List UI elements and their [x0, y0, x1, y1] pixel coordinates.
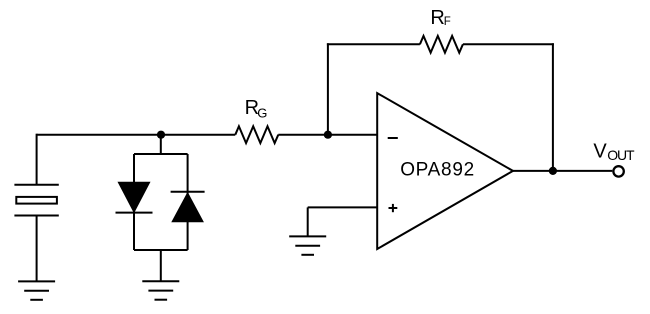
resistor RF — [420, 36, 463, 53]
label RF — [430, 7, 450, 29]
ground (non-inverting input) — [289, 236, 326, 254]
svg-text:F: F — [444, 16, 451, 28]
wire: feedback right vertical down to output node — [552, 43, 554, 171]
piezoelectric sensor X1 — [14, 185, 58, 216]
wire: junction down to diode box top — [160, 135, 162, 155]
wire: diode box outline — [134, 154, 188, 250]
wire: output from op-amp to terminal — [513, 170, 612, 172]
node: output junction dot — [549, 167, 557, 175]
diode D2 (right, cathode up) — [171, 192, 205, 222]
wire: main horizontal from sensor branch to RG — [37, 134, 236, 136]
output terminal circle — [613, 166, 623, 176]
node: junction dot at inverting input / feedback — [324, 131, 332, 139]
node: junction dot at diode branch — [157, 131, 165, 139]
wire: left vertical from main node down to sensor top — [36, 134, 38, 185]
wire: feedback top right segment — [463, 43, 554, 45]
label RG — [245, 97, 268, 121]
label VOUT — [593, 140, 635, 163]
diode D1 (left, cathode down) — [116, 182, 153, 212]
svg-text:V: V — [593, 140, 607, 162]
svg-text:OUT: OUT — [607, 147, 635, 163]
wire: feedback branch up from inverting node — [327, 43, 329, 134]
wire: feedback top left segment — [327, 43, 420, 45]
ground (diodes) — [142, 281, 179, 299]
wire: RG to op-amp inverting input — [278, 134, 377, 136]
ground (sensor) — [18, 281, 55, 299]
wire: non-inverting input down to ground — [307, 207, 309, 236]
wire: sensor bottom to ground — [36, 216, 38, 282]
wire: non-inverting input horizontal — [308, 206, 378, 208]
svg-text:R: R — [430, 7, 444, 29]
svg-text:OPA892: OPA892 — [400, 159, 475, 180]
resistor RG — [235, 126, 278, 143]
pin label: inverting input minus — [388, 137, 398, 139]
svg-text:G: G — [257, 105, 267, 120]
op-amp U1 OPA892 — [377, 93, 513, 249]
pin label: non-inverting input plus — [389, 204, 398, 212]
wire: diode box bottom to ground — [160, 250, 162, 281]
